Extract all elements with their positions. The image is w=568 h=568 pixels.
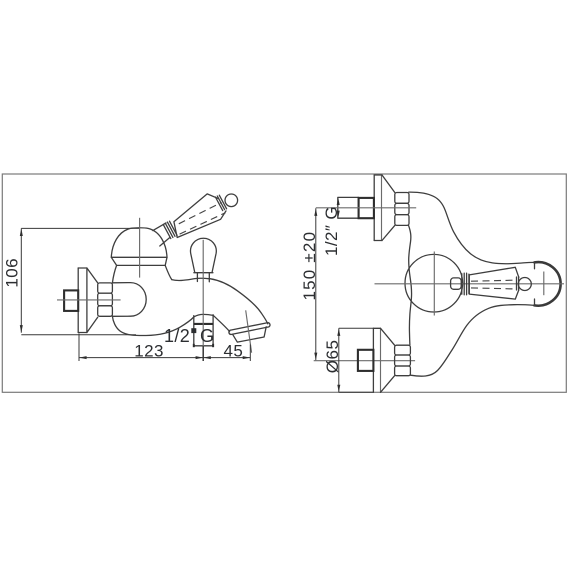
left view spout outlet rim bbox=[229, 323, 270, 335]
right view bottom flange bbox=[373, 328, 394, 392]
svg-text:1/2″ G: 1/2″ G bbox=[322, 206, 341, 256]
right view top pipe centerline bbox=[316, 207, 416, 209]
dimension 123 extension line left bbox=[78, 334, 80, 362]
right view top flange bbox=[374, 175, 395, 241]
left view diverter centerline bbox=[202, 240, 204, 361]
left view wall flange bbox=[78, 268, 98, 333]
right view bottom nut bbox=[395, 345, 411, 376]
right view end cap centerline bbox=[543, 272, 545, 296]
dimension O65 line bbox=[338, 328, 340, 392]
right view handle cone bbox=[469, 267, 519, 299]
right view handle dashed lines bbox=[471, 280, 514, 289]
dimension 123 line bbox=[79, 357, 203, 359]
left view dome cap bbox=[111, 228, 167, 258]
left view lever handle collar bbox=[163, 221, 177, 238]
left view lever handle cone bbox=[174, 194, 226, 238]
right view body outline top edge bbox=[409, 192, 535, 264]
right view body left waist bbox=[409, 226, 412, 345]
right view vertical centerline bbox=[433, 252, 435, 316]
svg-text:G: G bbox=[200, 326, 214, 346]
dimension 1/2 G arrows right view bbox=[337, 197, 340, 205]
dimension 106 arrow down bbox=[20, 325, 23, 333]
svg-text:Ø65: Ø65 bbox=[323, 340, 342, 374]
right view bottom eccentric fitting bbox=[358, 350, 374, 371]
left view body boss loop bbox=[112, 283, 146, 317]
left view neck bbox=[112, 265, 116, 282]
left view lever handle ball bbox=[225, 194, 238, 207]
dimension 45 extension line right bbox=[249, 345, 251, 362]
dimension 123 arrows bbox=[79, 356, 87, 359]
left view lever handle tip collar bbox=[215, 195, 226, 210]
left view spout outlet cup bbox=[233, 327, 267, 342]
right view top eccentric fitting bbox=[359, 198, 374, 218]
dimension 106 line bbox=[20, 228, 22, 332]
left view spout top curve bbox=[210, 279, 268, 324]
left view vertical centerline bbox=[139, 218, 141, 278]
right view handle stem bbox=[451, 278, 462, 289]
left view outlet axis centerline bbox=[246, 310, 252, 352]
right view bottom pipe centerline bbox=[314, 360, 415, 362]
right view cartridge circle bbox=[405, 254, 463, 312]
left view supply pipe bbox=[64, 290, 78, 311]
left view inlet square bbox=[194, 315, 213, 347]
left view pipe centerline bbox=[57, 299, 121, 301]
right view handle collar bbox=[462, 273, 469, 295]
right view horizontal centerline bbox=[375, 283, 565, 285]
dimension O65 extension lines bbox=[339, 327, 374, 329]
left view dome base band bbox=[111, 257, 167, 265]
left view spout underside bbox=[213, 315, 230, 331]
left view diverter stem bbox=[197, 273, 209, 282]
svg-text:1/2: 1/2 bbox=[164, 326, 190, 346]
right view top nut bbox=[395, 193, 409, 226]
dimension 106 extension line bottom bbox=[21, 334, 136, 336]
dimension 45 arrows bbox=[203, 356, 211, 359]
border frame bbox=[2, 174, 566, 392]
right view end cap chords bbox=[534, 262, 536, 305]
dimension 150 line bbox=[315, 208, 317, 360]
dimension 45 line bbox=[203, 357, 250, 359]
svg-text:106: 106 bbox=[3, 258, 22, 288]
left view lever handle dashed lines bbox=[179, 202, 226, 234]
svg-text:150 ±20: 150 ±20 bbox=[300, 231, 319, 301]
left view diverter bulb bbox=[191, 238, 217, 272]
right view top supply pipe bbox=[338, 197, 359, 218]
left view lever handle stem bbox=[153, 223, 170, 246]
left view mounting nut bbox=[98, 283, 113, 316]
left view body top line bbox=[172, 278, 210, 280]
right view body bottom edge bbox=[410, 305, 534, 377]
right view handle tip collar bbox=[517, 277, 519, 291]
left view body lower outline bbox=[112, 314, 213, 335]
svg-text:123: 123 bbox=[134, 341, 164, 360]
right view handle ball bbox=[518, 278, 531, 291]
right view end cap thick arc bbox=[535, 262, 561, 306]
svg-text:45: 45 bbox=[224, 341, 244, 360]
dimension 106 extension line top bbox=[21, 227, 139, 229]
dimension 106 arrow up bbox=[20, 228, 23, 236]
